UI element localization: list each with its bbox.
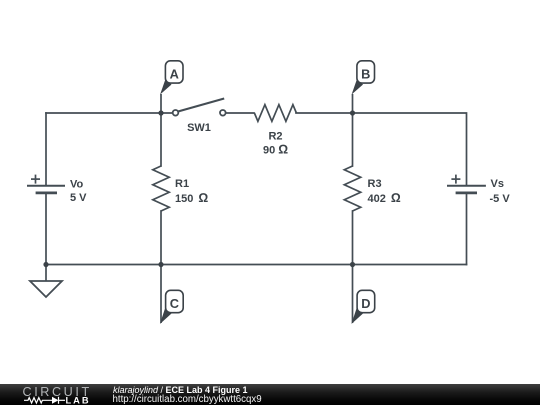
node D bbox=[351, 265, 374, 325]
svg-text:R2: R2 bbox=[268, 130, 282, 142]
svg-text:Vo: Vo bbox=[70, 178, 84, 190]
footer line 1 bbox=[113, 385, 248, 395]
wire ground stem bbox=[45, 265, 47, 282]
svg-text:402 Ω: 402 Ω bbox=[368, 191, 401, 205]
battery Vs bbox=[447, 175, 486, 193]
svg-text:LAB: LAB bbox=[66, 395, 91, 405]
svg-text:150 Ω: 150 Ω bbox=[175, 191, 208, 205]
resistor R3 bbox=[344, 166, 360, 211]
node A bbox=[160, 61, 183, 113]
wire left top bbox=[45, 113, 47, 185]
wire bottom bbox=[46, 264, 467, 266]
footer line 2 bbox=[113, 394, 262, 405]
wire R1 top stem bbox=[160, 113, 162, 166]
svg-text:90 Ω: 90 Ω bbox=[263, 142, 288, 156]
wire R1 bottom stem bbox=[160, 211, 162, 265]
svg-text:SW1: SW1 bbox=[187, 122, 211, 134]
ground bbox=[30, 281, 62, 297]
svg-text:B: B bbox=[361, 67, 370, 82]
CircuitLab logo bbox=[0, 383, 110, 405]
junction dot node C bbox=[158, 262, 163, 267]
footer bar bbox=[0, 384, 540, 405]
wire R2 to node B bbox=[296, 112, 353, 114]
svg-text:-5 V: -5 V bbox=[490, 193, 511, 205]
svg-text:5 V: 5 V bbox=[70, 192, 87, 204]
battery Vo bbox=[27, 175, 65, 193]
wire switch to R2 bbox=[226, 112, 254, 114]
wire Vs to bottom bbox=[466, 194, 468, 265]
junction dot node B bbox=[350, 110, 355, 115]
junction dot node D bbox=[350, 262, 355, 267]
wire top-left bbox=[46, 112, 173, 114]
junction dot node A bbox=[158, 110, 163, 115]
node C bbox=[160, 265, 183, 325]
svg-text:Vs: Vs bbox=[491, 178, 504, 190]
resistor R2 bbox=[254, 105, 296, 122]
wire R3 top stem bbox=[352, 113, 354, 166]
junction dot ground bbox=[43, 262, 48, 267]
svg-text:R3: R3 bbox=[368, 178, 382, 190]
switch SW1 bbox=[173, 99, 226, 116]
wire R3 bottom stem bbox=[352, 211, 354, 265]
svg-text:R1: R1 bbox=[175, 178, 189, 190]
node B bbox=[352, 61, 375, 113]
resistor R1 bbox=[153, 166, 169, 211]
wire left bottom bbox=[45, 194, 47, 265]
svg-text:D: D bbox=[361, 296, 370, 311]
wire top-right bbox=[353, 113, 467, 185]
svg-text:A: A bbox=[170, 67, 179, 82]
svg-text:C: C bbox=[170, 296, 179, 311]
